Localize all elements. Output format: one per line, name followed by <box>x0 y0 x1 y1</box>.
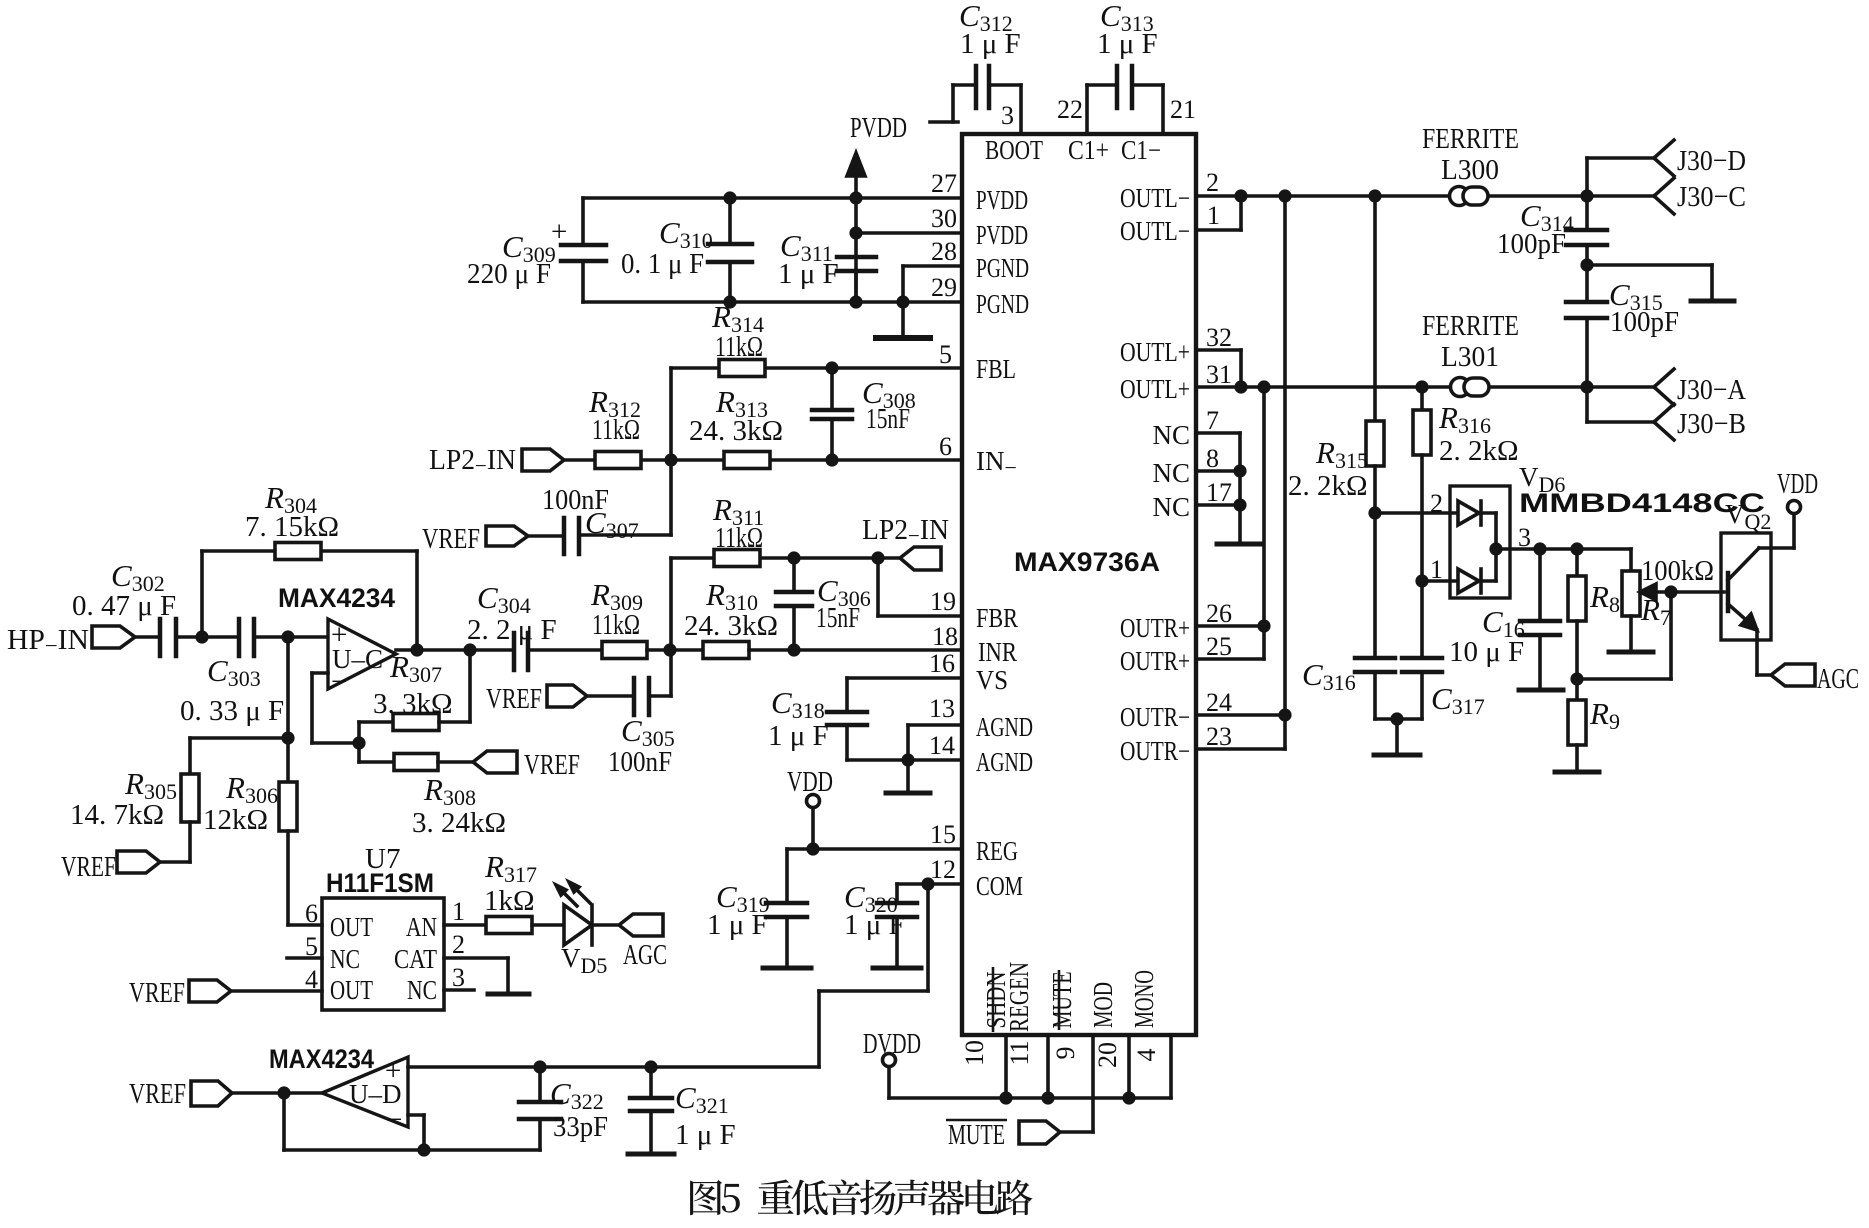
wire pin6 IN- rail <box>564 458 962 462</box>
svg-text:1: 1 <box>1207 201 1220 230</box>
svg-text:14: 14 <box>929 731 955 760</box>
label C312 <box>959 0 1021 60</box>
svg-text:OUTL−: OUTL− <box>1120 183 1190 213</box>
svg-text:7. 15kΩ: 7. 15kΩ <box>245 511 339 543</box>
svg-text:17: 17 <box>1206 478 1232 507</box>
svg-text:18: 18 <box>932 622 958 651</box>
ground U7 pin2 <box>488 992 529 997</box>
svg-text:15nF: 15nF <box>816 602 860 634</box>
svg-text:24: 24 <box>1206 688 1232 717</box>
op-amp U-C symbols <box>331 619 383 698</box>
ground below PGND <box>876 302 930 338</box>
capacitor C317 <box>1402 581 1442 719</box>
svg-text:L301: L301 <box>1441 341 1499 373</box>
svg-text:29: 29 <box>931 273 957 302</box>
connector J30-B <box>1654 404 1674 440</box>
svg-text:1 μ F: 1 μ F <box>675 1119 736 1151</box>
diode VD6 MMBD4148CC <box>1375 486 1510 598</box>
svg-text:2. 2kΩ: 2. 2kΩ <box>1439 435 1519 467</box>
label R305 <box>70 766 177 831</box>
svg-text:1 μ F: 1 μ F <box>960 28 1021 60</box>
svg-text:14. 7kΩ: 14. 7kΩ <box>70 799 164 831</box>
label C322 <box>550 1076 608 1143</box>
connector VREF (C307) <box>486 526 528 546</box>
label R304 <box>245 480 339 543</box>
svg-text:15nF: 15nF <box>866 403 910 435</box>
wire pin12 COM rail <box>897 884 962 903</box>
wire pin32 OUTL+ loop <box>1196 350 1241 387</box>
svg-text:0. 1 μ F: 0. 1 μ F <box>621 248 704 280</box>
capacitor C303 <box>239 619 254 656</box>
svg-text:0. 33 μ F: 0. 33 μ F <box>180 695 284 727</box>
svg-text:3: 3 <box>452 963 465 992</box>
svg-text:VREF: VREF <box>524 749 580 781</box>
svg-text:AGND: AGND <box>976 747 1033 777</box>
power VDD terminal <box>807 795 820 850</box>
svg-text:VREF: VREF <box>486 683 542 715</box>
wire COM feedback path <box>819 884 928 1067</box>
label R314 <box>711 299 764 363</box>
svg-text:220 μ F: 220 μ F <box>467 258 551 290</box>
label C309 <box>467 216 567 290</box>
label MUTE input <box>946 1119 1007 1151</box>
wire NC pins 7 8 17 <box>1196 433 1262 544</box>
svg-text:VREF: VREF <box>422 523 480 555</box>
wire pin20 MOD <box>1127 1035 1131 1098</box>
capacitor C309 <box>561 198 606 302</box>
label C308 <box>862 375 916 435</box>
svg-text:24. 3kΩ: 24. 3kΩ <box>689 415 783 447</box>
resistor R307 <box>359 650 470 731</box>
resistor R314 <box>719 360 765 377</box>
svg-text:10: 10 <box>960 1040 989 1066</box>
svg-text:PVDD: PVDD <box>976 220 1028 250</box>
ground C320 <box>873 966 921 971</box>
ground C321 <box>628 1152 674 1157</box>
op-amp U-C MAX4234 <box>328 619 396 689</box>
wire node C <box>647 648 703 652</box>
label C315 <box>1609 277 1679 338</box>
label R316 <box>1438 400 1519 467</box>
capacitor C318 <box>827 712 867 760</box>
svg-text:2: 2 <box>452 930 465 959</box>
svg-text:LP2−IN: LP2−IN <box>862 514 949 548</box>
label R317 <box>484 849 537 917</box>
svg-text:+: + <box>551 216 567 248</box>
svg-text:H11F1SM: H11F1SM <box>326 868 434 898</box>
wire pin30 PVDD rail <box>856 231 962 235</box>
label R313 <box>689 384 783 447</box>
capacitor C306 <box>776 558 812 650</box>
svg-text:NC: NC <box>1152 458 1190 488</box>
svg-text:4: 4 <box>1132 1049 1161 1062</box>
svg-text:11kΩ: 11kΩ <box>592 609 640 641</box>
wire pin4 MONO <box>1169 1035 1173 1098</box>
svg-text:23: 23 <box>1206 722 1232 751</box>
label R307 <box>373 649 453 720</box>
label C318 <box>768 685 829 752</box>
wire R311 rail <box>671 556 900 560</box>
label C305 <box>608 713 675 778</box>
overline MUTE pin <box>1058 970 1061 1030</box>
svg-text:9: 9 <box>1051 1047 1080 1060</box>
svg-text:0. 47 μ F: 0. 47 μ F <box>72 590 176 622</box>
wire U7 pin3 stub <box>444 988 474 992</box>
wire node B riser to divider <box>286 637 290 738</box>
wire pin13 AGND <box>908 725 962 760</box>
U7 pin numbers <box>305 897 465 994</box>
wire HP_IN to C302 <box>135 635 160 639</box>
wire pin14 AGND rail <box>847 758 962 762</box>
resistor R306 <box>279 738 297 925</box>
wire U7 pin5 stub <box>287 956 322 960</box>
svg-text:FERRITE: FERRITE <box>1422 310 1519 342</box>
svg-text:OUTR−: OUTR− <box>1120 736 1190 766</box>
svg-text:31: 31 <box>1206 360 1232 389</box>
wire pin9 MUTE <box>1060 1035 1093 1132</box>
svg-text:BOOT: BOOT <box>985 135 1043 165</box>
wire J30-D branch <box>1587 158 1654 196</box>
connector VREF (C305) <box>547 685 587 707</box>
svg-text:11kΩ: 11kΩ <box>715 522 763 554</box>
svg-text:100nF: 100nF <box>608 746 672 778</box>
capacitor C314 <box>1566 196 1607 265</box>
svg-text:VREF: VREF <box>129 977 185 1009</box>
svg-text:INR: INR <box>978 637 1017 667</box>
svg-text:LP2−IN: LP2−IN <box>429 444 516 478</box>
connector J30-C <box>1654 178 1674 214</box>
caption <box>690 1179 1032 1215</box>
svg-text:VDD: VDD <box>1777 468 1818 500</box>
wire to pin18 INR <box>749 648 962 652</box>
wire U-D feedback loop <box>284 1093 540 1150</box>
svg-text:DVDD: DVDD <box>863 1028 921 1060</box>
svg-text:2: 2 <box>1206 168 1219 197</box>
svg-text:VREF: VREF <box>129 1078 186 1110</box>
svg-text:REGEN: REGEN <box>1004 962 1034 1032</box>
capacitor C308 <box>812 368 852 460</box>
label C16 <box>1449 604 1525 668</box>
svg-text:2: 2 <box>1430 489 1443 518</box>
label C306 <box>816 573 871 634</box>
resistor R9 <box>1555 679 1599 772</box>
resistor R313 <box>724 452 770 469</box>
capacitor C304 <box>514 633 528 670</box>
svg-text:13: 13 <box>929 694 955 723</box>
wire J30-B branch <box>1587 387 1654 422</box>
wire U7 pin6 <box>288 923 322 927</box>
connector J30-D <box>1654 140 1674 176</box>
svg-text:REG: REG <box>976 836 1018 866</box>
wire pin15 REG rail <box>787 847 962 851</box>
potentiometer R7 100k <box>1577 549 1724 679</box>
svg-text:NC: NC <box>330 944 360 974</box>
svg-text:11kΩ: 11kΩ <box>592 414 640 446</box>
resistor R315 <box>1366 196 1384 513</box>
label C307 <box>542 484 639 543</box>
svg-text:MOD: MOD <box>1088 982 1118 1028</box>
wire pin22 C1+ <box>1085 85 1089 134</box>
capacitor C322 <box>519 1067 561 1150</box>
IC pin names right side <box>1120 183 1190 766</box>
svg-text:3. 3kΩ: 3. 3kΩ <box>373 688 453 720</box>
wire pin21 C1- <box>1161 85 1165 134</box>
wire pin24 OUTR- loop <box>1196 715 1285 749</box>
svg-text:AN: AN <box>406 912 437 942</box>
IC rotated bottom pin names <box>981 962 1159 1032</box>
svg-text:20: 20 <box>1093 1042 1122 1068</box>
label C311 <box>778 228 839 290</box>
svg-text:21: 21 <box>1170 95 1196 124</box>
label C302 <box>72 558 176 622</box>
wire pin1 OUTL- loop <box>1196 196 1241 230</box>
resistor R312 <box>595 452 641 469</box>
capacitor C321 <box>630 1067 672 1152</box>
svg-text:FBR: FBR <box>976 603 1018 633</box>
optocoupler U7 H11F1SM <box>322 898 444 1010</box>
svg-text:27: 27 <box>931 169 957 198</box>
svg-text:J30−D: J30−D <box>1677 145 1746 177</box>
connector VREF (U-D) <box>191 1081 232 1106</box>
op-amp U-D symbols <box>349 1055 402 1136</box>
svg-text:PVDD: PVDD <box>850 112 907 144</box>
svg-text:1 μ F: 1 μ F <box>1097 28 1158 60</box>
svg-text:VREF: VREF <box>61 851 116 883</box>
svg-text:PGND: PGND <box>976 289 1029 319</box>
svg-text:VDD: VDD <box>787 766 833 798</box>
capacitor C316 <box>1355 513 1395 719</box>
capacitor C312 <box>930 66 1021 122</box>
wire pin28 PGND rail <box>903 266 962 302</box>
label R310 <box>684 577 778 642</box>
svg-text:100pF: 100pF <box>1497 228 1566 260</box>
power DVDD terminal <box>883 1054 896 1099</box>
svg-text:22: 22 <box>1057 95 1083 124</box>
wire pin11 REGEN <box>1046 1035 1050 1098</box>
svg-text:6: 6 <box>939 432 952 461</box>
svg-text:32: 32 <box>1206 323 1232 352</box>
svg-text:AGC: AGC <box>623 939 667 971</box>
svg-text:VS: VS <box>976 665 1008 695</box>
wire pin31 OUTL+ rail <box>1196 385 1654 389</box>
power PVDD arrow <box>847 153 865 302</box>
connector VREF (R305) <box>117 851 160 873</box>
svg-text:3: 3 <box>1518 523 1531 552</box>
svg-text:NC: NC <box>1152 492 1190 522</box>
svg-text:19: 19 <box>930 587 956 616</box>
wire VREF to U-D <box>232 1091 322 1095</box>
connector J30-A <box>1654 369 1674 405</box>
ground C319 <box>763 966 811 971</box>
wire node B to op-amp <box>254 635 328 639</box>
svg-text:MAX9736A: MAX9736A <box>1014 547 1160 577</box>
label R306 <box>203 770 278 836</box>
resistor R316 <box>1413 387 1431 581</box>
label C321 <box>675 1080 736 1151</box>
label C310 <box>621 215 713 280</box>
svg-text:OUTR−: OUTR− <box>1120 702 1190 732</box>
wire node A <box>176 635 239 639</box>
svg-text:PGND: PGND <box>976 253 1029 283</box>
wire pin19 FBR <box>878 558 962 616</box>
wire pin26 OUTR+ loop <box>1196 626 1264 659</box>
connector AGC (VD5) <box>619 914 663 936</box>
svg-text:OUTL−: OUTL− <box>1120 216 1190 246</box>
connector VREF (U7 pin4) <box>189 980 231 1002</box>
wire pin2 OUTL- rail <box>1196 194 1654 198</box>
svg-text:25: 25 <box>1206 632 1232 661</box>
wire pin16 VS <box>847 678 962 712</box>
wire divider rail <box>190 736 288 740</box>
svg-text:5: 5 <box>305 932 318 961</box>
svg-text:100kΩ: 100kΩ <box>1641 555 1714 587</box>
svg-text:J30−A: J30−A <box>1677 374 1746 406</box>
wire pin3 BOOT <box>1019 85 1023 134</box>
label 100k R7 <box>1640 555 1714 630</box>
svg-text:1: 1 <box>1430 555 1443 584</box>
overline SHDN <box>992 967 995 1032</box>
svg-text:100pF: 100pF <box>1610 306 1679 338</box>
connector AGC (VQ2) <box>1771 664 1815 686</box>
svg-text:3. 24kΩ: 3. 24kΩ <box>412 807 506 839</box>
resistor R8 <box>1568 549 1586 679</box>
label C320 <box>844 879 905 941</box>
svg-text:30: 30 <box>931 204 957 233</box>
svg-text:MAX4234: MAX4234 <box>278 583 395 613</box>
svg-text:PVDD: PVDD <box>976 185 1028 215</box>
wire C304 to R309 <box>528 648 602 652</box>
svg-text:11: 11 <box>1005 1040 1034 1065</box>
svg-text:COM: COM <box>976 871 1023 901</box>
resistor R317 <box>486 917 532 934</box>
connector VREF (R308) <box>473 751 517 773</box>
svg-text:33pF: 33pF <box>553 1111 608 1143</box>
connector HP_IN <box>92 626 135 648</box>
svg-text:OUTR+: OUTR+ <box>1120 613 1190 643</box>
svg-text:OUT: OUT <box>330 975 373 1005</box>
svg-text:1 μ F: 1 μ F <box>707 909 768 941</box>
label FERRITE L300 <box>1422 123 1519 186</box>
svg-text:1: 1 <box>452 897 465 926</box>
label R309 <box>590 577 643 641</box>
connector LP2_IN (FBR) <box>900 547 941 570</box>
label C313 <box>1097 0 1158 60</box>
svg-text:J30−C: J30−C <box>1677 181 1746 213</box>
svg-text:26: 26 <box>1206 599 1232 628</box>
svg-text:7: 7 <box>1206 406 1219 435</box>
svg-text:FERRITE: FERRITE <box>1422 123 1519 155</box>
wire FBL left riser <box>669 368 673 535</box>
svg-text:AGND: AGND <box>976 712 1033 742</box>
IC pin names left side <box>976 135 1161 901</box>
svg-text:1 μ F: 1 μ F <box>778 258 839 290</box>
power VDD terminal (VQ2) <box>1788 501 1801 549</box>
svg-text:NC: NC <box>407 975 437 1005</box>
wire C316 C317 common ground <box>1374 719 1422 755</box>
wire pin5 FBL rail <box>671 366 962 370</box>
wire U7 pin4 <box>231 989 322 993</box>
op-amp U-D MAX4234 <box>322 1057 408 1127</box>
svg-text:OUT: OUT <box>330 912 373 942</box>
capacitor C302 <box>160 619 176 656</box>
wire U-C feedback to minus input <box>312 673 359 762</box>
wire pin27 PVDD rail <box>583 196 962 200</box>
wire R311 branch riser <box>669 558 673 696</box>
wire pin29 PGND rail <box>583 300 962 304</box>
ferrite bead L300 <box>1450 187 1489 206</box>
svg-text:MONO: MONO <box>1129 970 1159 1028</box>
svg-text:AGC: AGC <box>1817 663 1859 695</box>
capacitor C305 <box>587 678 671 715</box>
svg-text:2. 2 μ F: 2. 2 μ F <box>467 614 557 646</box>
ground AGND <box>886 760 930 793</box>
svg-text:C1+: C1+ <box>1068 135 1109 165</box>
svg-text:MUTE: MUTE <box>948 1119 1005 1151</box>
svg-text:15: 15 <box>930 820 956 849</box>
svg-text:NC: NC <box>1152 420 1190 450</box>
wire OUTL+ to OUTR+ bridge <box>1262 387 1266 626</box>
label C319 <box>707 879 770 941</box>
svg-text:28: 28 <box>931 237 957 266</box>
capacitor C16 <box>1519 549 1563 690</box>
svg-text:OUTR+: OUTR+ <box>1120 646 1190 676</box>
svg-text:OUTL+: OUTL+ <box>1120 337 1190 367</box>
capacitor C311 <box>837 257 876 302</box>
svg-text:−: − <box>386 1104 402 1136</box>
svg-text:12: 12 <box>930 855 956 884</box>
label R311 <box>712 492 764 554</box>
svg-text:CAT: CAT <box>394 944 437 974</box>
svg-text:16: 16 <box>929 649 955 678</box>
svg-text:J30−B: J30−B <box>1677 408 1746 440</box>
svg-text:1 μ F: 1 μ F <box>768 720 829 752</box>
svg-text:5: 5 <box>939 340 952 369</box>
ferrite bead L301 <box>1451 378 1490 397</box>
wire U7 pin2 CAT <box>444 958 508 992</box>
connector LP2_IN <box>522 449 564 471</box>
svg-text:OUTL+: OUTL+ <box>1120 374 1190 404</box>
label R308 <box>412 772 506 839</box>
resistor R309 <box>602 642 647 659</box>
transistor VQ2 <box>1721 533 1794 675</box>
svg-text:12kΩ: 12kΩ <box>203 804 268 836</box>
wire DVDD rail <box>889 1096 1171 1100</box>
wire OUTL- to OUTR- bridge <box>1283 196 1287 715</box>
capacitor C310 <box>708 198 752 302</box>
svg-text:C1−: C1− <box>1121 135 1161 165</box>
resistor R311 <box>714 550 760 567</box>
wire pin10 SHDN <box>1004 1035 1008 1098</box>
wire U7 pin1 to R317 <box>444 923 486 927</box>
svg-text:4: 4 <box>305 965 318 994</box>
capacitor C307 <box>528 518 671 554</box>
svg-text:L300: L300 <box>1441 154 1499 186</box>
label R312 <box>588 384 641 446</box>
resistor R308 <box>359 754 473 771</box>
resistor R304 loop <box>202 543 417 651</box>
label C304 <box>467 580 557 646</box>
svg-text:11kΩ: 11kΩ <box>715 331 763 363</box>
wire C315 ground branch <box>1587 265 1734 301</box>
op-amp U1 MAX9736A body <box>962 134 1196 1035</box>
LED VD5 <box>556 882 619 945</box>
svg-text:1kΩ: 1kΩ <box>484 885 535 917</box>
svg-text:8: 8 <box>1206 444 1219 473</box>
svg-text:FBL: FBL <box>976 354 1016 384</box>
capacitor C315 <box>1566 265 1607 387</box>
svg-text:3: 3 <box>1001 101 1014 130</box>
svg-text:MUTE: MUTE <box>1047 972 1077 1029</box>
